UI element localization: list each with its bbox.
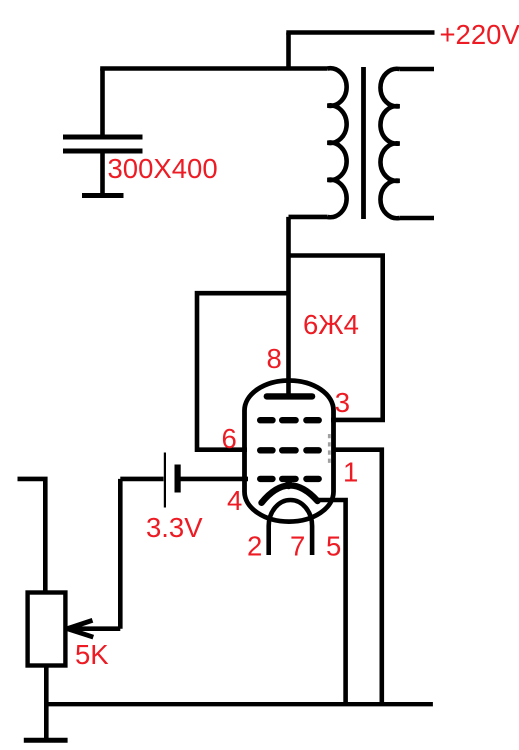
svg-text:8: 8	[267, 343, 282, 374]
svg-text:+220V: +220V	[440, 19, 519, 50]
svg-text:5: 5	[326, 531, 341, 562]
svg-text:3: 3	[335, 387, 350, 418]
svg-text:300X400: 300X400	[108, 153, 218, 184]
svg-text:1: 1	[343, 457, 358, 488]
svg-text:5K: 5K	[75, 639, 109, 670]
svg-text:2: 2	[247, 531, 262, 562]
svg-text:3.3V: 3.3V	[146, 512, 203, 543]
svg-text:6Ж4: 6Ж4	[303, 309, 359, 340]
svg-text:6: 6	[222, 423, 237, 454]
svg-text:7: 7	[290, 531, 305, 562]
svg-text:4: 4	[227, 485, 242, 516]
